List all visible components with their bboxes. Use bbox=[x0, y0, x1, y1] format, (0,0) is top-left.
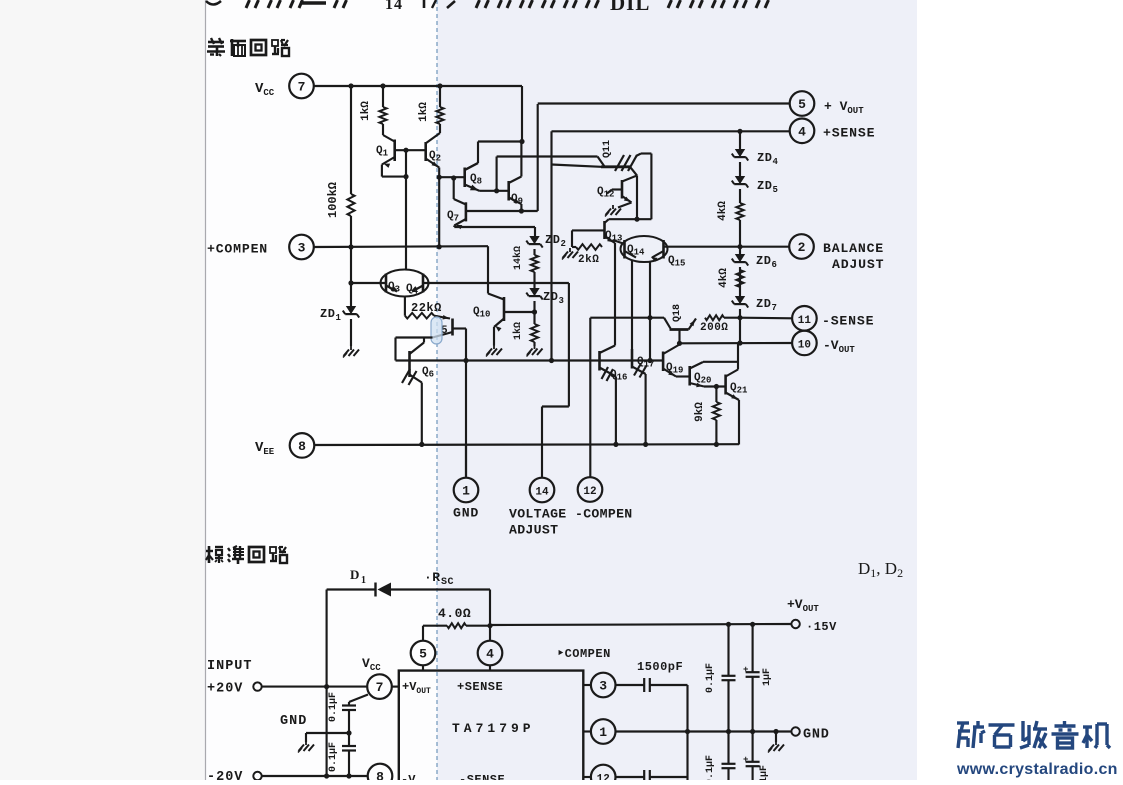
junction gnd stub bbox=[773, 729, 778, 734]
junction +SENSE drop bbox=[549, 358, 554, 363]
svg-text:D: D bbox=[350, 567, 360, 582]
pin 11 circle (-SENSE) bbox=[792, 306, 817, 331]
wire VEE rail bbox=[314, 443, 739, 446]
label 0.1uF (neg) bbox=[705, 755, 716, 785]
svg-text:Q11: Q11 bbox=[602, 140, 613, 158]
svg-text:+SENSE: +SENSE bbox=[457, 680, 503, 694]
pin 1 circle (GND) bbox=[454, 478, 479, 503]
svg-text:3: 3 bbox=[599, 679, 607, 694]
zener ZD4 bbox=[732, 149, 748, 161]
junction Q9 emitter on output wire bbox=[519, 208, 524, 213]
svg-text:ZD: ZD bbox=[757, 151, 772, 165]
svg-text:1kΩ: 1kΩ bbox=[360, 101, 372, 121]
zener ZD5 bbox=[732, 176, 748, 188]
svg-text:9kΩ: 9kΩ bbox=[694, 402, 706, 422]
junction ZD1/Q3 wire bbox=[348, 280, 353, 285]
transistor Q11 (hatched) bbox=[601, 154, 651, 176]
svg-text:GND: GND bbox=[280, 714, 307, 729]
junction RSC/4ohm bbox=[487, 623, 492, 628]
label -SENSE (IC) bbox=[459, 773, 505, 785]
pin 8 circle (VEE) bbox=[290, 433, 315, 458]
terminal GND bbox=[791, 727, 799, 735]
svg-text:2: 2 bbox=[561, 239, 567, 249]
wire -VOUT net bbox=[680, 342, 793, 344]
junction balance/zener chain bbox=[737, 244, 742, 249]
stub pin4 to IC bbox=[489, 665, 491, 670]
svg-text:5: 5 bbox=[773, 185, 779, 195]
label -VOUT (IC) bbox=[401, 773, 430, 785]
ground (input) bbox=[298, 741, 314, 753]
junction caps/-20V bbox=[346, 773, 351, 778]
wire GND rail (bottom) bbox=[616, 730, 792, 732]
zener ZD2 bbox=[526, 236, 542, 248]
svg-text:3: 3 bbox=[298, 241, 306, 256]
resistor 2kOhm bbox=[572, 230, 602, 249]
ground (ZD1) bbox=[343, 346, 359, 358]
pin 14 circle (VOLTAGE ADJUST) bbox=[530, 478, 555, 503]
label +VOUT (IC) bbox=[402, 680, 431, 696]
label BALANCE ADJUST bbox=[823, 241, 884, 272]
capacitor 0.1uF (upper) bbox=[342, 706, 356, 711]
wire Q8 base bbox=[439, 176, 465, 178]
svg-text:ZD: ZD bbox=[756, 297, 771, 311]
wire Q6 emitter to VEE bbox=[421, 383, 423, 445]
junction Q19 base bbox=[647, 358, 652, 363]
svg-text:GND: GND bbox=[453, 506, 479, 521]
svg-text:+: + bbox=[743, 665, 749, 675]
label 1uF (neg) bbox=[759, 765, 770, 783]
svg-text:1: 1 bbox=[336, 313, 342, 323]
svg-text:BALANCE: BALANCE bbox=[823, 241, 884, 256]
svg-text:12: 12 bbox=[583, 486, 596, 498]
svg-text:0.1μF: 0.1μF bbox=[328, 692, 339, 722]
wire RSC right drop bbox=[489, 590, 491, 641]
transistor Q16 bbox=[600, 346, 616, 382]
label Q12 bbox=[597, 186, 614, 200]
svg-text:3: 3 bbox=[559, 296, 565, 306]
label Q13 bbox=[605, 230, 622, 244]
svg-text:14: 14 bbox=[535, 487, 549, 499]
resistor 14kOhm bbox=[531, 249, 538, 288]
svg-text:ZD: ZD bbox=[543, 290, 558, 304]
label Q19 bbox=[666, 362, 683, 376]
wire Q8 collector top bbox=[465, 142, 522, 171]
svg-text:4: 4 bbox=[773, 157, 779, 167]
label Q1 bbox=[376, 145, 389, 159]
label GND (output) bbox=[803, 728, 830, 743]
svg-text:12: 12 bbox=[597, 774, 610, 781]
zener ZD7 bbox=[732, 296, 748, 308]
svg-text:0.1μF: 0.1μF bbox=[705, 663, 716, 693]
wire balance adjust net bbox=[664, 246, 790, 248]
svg-text:4: 4 bbox=[798, 124, 806, 139]
junction VEE/9k bbox=[714, 442, 719, 447]
label VEE bbox=[255, 440, 275, 457]
svg-text:7: 7 bbox=[298, 80, 306, 95]
stub pin7 to IC bbox=[392, 686, 399, 688]
terminal +20V bbox=[253, 682, 261, 690]
heading: equivalent-circuit (Japanese) bbox=[207, 38, 289, 56]
svg-text:-SENSE: -SENSE bbox=[822, 314, 874, 329]
wire Q21 emitter to VEE bbox=[738, 400, 740, 445]
capacitor 1500pF bbox=[616, 678, 688, 692]
label D1 bbox=[350, 567, 367, 586]
pin 7 circle (bottom) bbox=[367, 674, 392, 699]
wire Q2 emitter to node bbox=[438, 168, 440, 178]
label D1 D2 note bbox=[858, 559, 903, 580]
zener ZD1 bbox=[343, 247, 359, 346]
label 1kOhm (Q2) bbox=[418, 102, 430, 122]
dual transistor Q14/Q15 oval bbox=[613, 236, 668, 262]
label Q8 bbox=[470, 173, 482, 187]
junction crossing -COMPEN wire bbox=[647, 315, 652, 320]
label Q7 bbox=[447, 210, 459, 224]
VCC label bbox=[255, 81, 275, 98]
svg-text:1kΩ: 1kΩ bbox=[418, 102, 430, 122]
label -COMPEN bbox=[575, 507, 633, 522]
label Q10 bbox=[473, 306, 490, 320]
label 4kOhm (lower) bbox=[718, 268, 730, 288]
junction Q13 net bbox=[634, 217, 639, 222]
label ZD4 bbox=[757, 151, 779, 167]
capacitor 0.1uF (lower) bbox=[342, 746, 356, 751]
svg-text:4kΩ: 4kΩ bbox=[717, 201, 729, 221]
junction VEE/Q6 bbox=[419, 442, 424, 447]
svg-text:1kΩ: 1kΩ bbox=[512, 322, 524, 340]
transistor Q1 bbox=[382, 140, 426, 177]
junction -VOUT/zener column bbox=[737, 340, 742, 345]
svg-text:VOLTAGE: VOLTAGE bbox=[509, 507, 567, 522]
label ZD7 bbox=[756, 297, 777, 313]
junction VEE/Q16 bbox=[613, 442, 618, 447]
junction +20V/D1 bbox=[324, 684, 329, 689]
junction Q1 emitter net bbox=[403, 174, 408, 179]
wire +20V bbox=[262, 686, 368, 688]
page left edge line bbox=[205, 0, 207, 780]
resistor 9kOhm bbox=[713, 387, 720, 445]
svg-text:8: 8 bbox=[376, 770, 384, 781]
svg-text:1: 1 bbox=[462, 484, 470, 499]
resistor 22kOhm bbox=[405, 313, 450, 320]
junction GND/1uF bbox=[750, 729, 755, 734]
svg-text:6: 6 bbox=[772, 260, 778, 270]
wire Q3 base bbox=[351, 282, 386, 284]
wire Q7 emitter node bbox=[454, 227, 535, 236]
svg-text:5: 5 bbox=[798, 97, 806, 112]
svg-text:ADJUST: ADJUST bbox=[509, 523, 558, 538]
wire +15V rail bbox=[490, 624, 791, 625]
junction +SENSE / zener chain bbox=[737, 129, 742, 134]
ground (Q10) bbox=[486, 345, 502, 357]
label +SENSE (IC) bbox=[457, 680, 503, 694]
label Q6 bbox=[422, 366, 434, 380]
svg-text:-COMPEN: -COMPEN bbox=[575, 507, 633, 522]
svg-text:SC: SC bbox=[441, 577, 454, 588]
junction VCC/1k Q2 bbox=[437, 83, 442, 88]
svg-text:1500pF: 1500pF bbox=[637, 660, 683, 674]
pin 1 circle (bottom) bbox=[591, 719, 616, 744]
ground (Q12 emitter) bbox=[605, 205, 621, 217]
resistor 100kOhm bbox=[347, 86, 354, 247]
diode D1 bbox=[327, 583, 490, 597]
svg-text:1: 1 bbox=[599, 725, 607, 740]
stub pin3 to IC bbox=[583, 684, 591, 686]
junction 9k top bbox=[714, 384, 719, 389]
wire Q11 to Q13 net bbox=[637, 154, 651, 220]
label Q4 bbox=[406, 283, 419, 297]
svg-text:ZD: ZD bbox=[756, 254, 771, 268]
pin 3 circle (bottom) bbox=[591, 673, 616, 698]
resistor 1kOhm (Q2) bbox=[427, 86, 444, 143]
label Q16 bbox=[610, 369, 627, 383]
label +VOUT +15V bbox=[787, 597, 837, 634]
watermark logo (crystalradio) bbox=[957, 721, 1110, 748]
svg-text:7: 7 bbox=[376, 680, 384, 695]
transistor Q6 (hatched) bbox=[402, 338, 424, 386]
svg-text:10: 10 bbox=[798, 339, 811, 351]
junction VCC/1k Q1 bbox=[380, 83, 385, 88]
label Q3 bbox=[388, 281, 400, 295]
junction 15V/0.1uF bbox=[726, 622, 731, 627]
svg-text:D1, D2: D1, D2 bbox=[858, 559, 903, 580]
terminal -20V bbox=[253, 772, 261, 780]
svg-text:200Ω: 200Ω bbox=[700, 322, 728, 334]
label 1kOhm (Q1) bbox=[360, 101, 372, 121]
svg-text:2kΩ: 2kΩ bbox=[578, 254, 599, 266]
junction VCC/100k bbox=[348, 83, 353, 88]
capacitor 0.1uF (output) bbox=[722, 624, 736, 731]
label Q15 bbox=[668, 255, 685, 269]
svg-text:5: 5 bbox=[419, 647, 427, 662]
svg-text:1μF: 1μF bbox=[762, 668, 773, 686]
capacitor 1uF (neg) bbox=[743, 732, 760, 781]
label +VOUT bbox=[824, 99, 864, 116]
label 200Ohm bbox=[700, 322, 728, 334]
wire Q18 base net (-COMPEN) bbox=[590, 318, 664, 477]
transistor Q19 bbox=[663, 345, 679, 377]
wire D1 left drop bbox=[326, 590, 328, 777]
label Q11 bbox=[602, 140, 613, 158]
label 0.1uF (upper) bbox=[328, 692, 339, 722]
label 1500pF bbox=[637, 660, 683, 674]
wire -SENSE to pin 11 bbox=[740, 317, 792, 320]
ground (2k resistor) bbox=[562, 248, 578, 260]
svg-text:TA7179P: TA7179P bbox=[452, 721, 535, 736]
junction -SENSE/zener bbox=[737, 315, 742, 320]
transistor Q17 bbox=[632, 349, 647, 378]
wire Q21 base bbox=[704, 385, 726, 387]
pin 5 circle (+VOUT) bbox=[790, 91, 815, 116]
label 4.0Ohm bbox=[438, 606, 471, 621]
capacitor (pin12) bbox=[616, 770, 688, 784]
transistor Q20 bbox=[676, 362, 704, 387]
svg-text:14kΩ: 14kΩ bbox=[512, 246, 524, 270]
svg-text:4kΩ: 4kΩ bbox=[718, 268, 730, 288]
wire Q14 to Q19 base bbox=[649, 261, 651, 361]
pin 10 circle (-VOUT) bbox=[792, 331, 817, 356]
wire Q16 emitter to VEE bbox=[615, 377, 617, 445]
label GND (input) bbox=[280, 714, 307, 729]
svg-text:+COMPEN: +COMPEN bbox=[207, 242, 268, 257]
svg-text:+: + bbox=[743, 755, 749, 765]
label Q5 bbox=[441, 325, 448, 337]
ground (1k) bbox=[527, 345, 543, 357]
transistor Q7 bbox=[454, 178, 466, 229]
label Q18 bbox=[672, 304, 683, 322]
label -VOUT bbox=[823, 338, 855, 355]
wire Q13 collector net bbox=[609, 218, 652, 220]
label ZD5 bbox=[757, 179, 778, 195]
pin 3 circle (+COMPEN) bbox=[289, 235, 314, 260]
label 0.1uF (output) bbox=[705, 663, 716, 693]
capacitor 1uF (output) bbox=[743, 624, 760, 731]
junction VEE/Q17 bbox=[643, 442, 648, 447]
svg-text:ZD: ZD bbox=[545, 233, 560, 247]
junction +COMPEN/100k bbox=[348, 244, 353, 249]
terminal +15V bbox=[791, 620, 799, 628]
label TA7179P bbox=[452, 721, 535, 736]
label ZD2 bbox=[545, 233, 566, 249]
label VOLTAGE ADJUST bbox=[509, 507, 567, 538]
wire +SENSE net bbox=[552, 131, 790, 360]
pin 12 circle (-COMPEN) bbox=[578, 477, 603, 502]
pin 12 circle (bottom) bbox=[591, 765, 616, 785]
label ZD1 bbox=[320, 307, 342, 323]
junction +COMPEN/Q7 base net bbox=[437, 244, 442, 249]
label 9kOhm bbox=[694, 402, 706, 422]
wire Q8 emitter to Q9 base bbox=[480, 190, 509, 192]
label Q14 bbox=[627, 244, 645, 258]
resistor 4kOhm (lower) bbox=[736, 270, 743, 287]
wire GND tap bbox=[306, 733, 349, 742]
svg-text:www.crystalradio.cn: www.crystalradio.cn bbox=[956, 761, 1118, 778]
svg-text:0.1μF: 0.1μF bbox=[705, 755, 716, 780]
wire 1500pF drop bbox=[686, 685, 688, 780]
junction GND/0.1uF bbox=[726, 729, 731, 734]
svg-text:‣COMPEN: ‣COMPEN bbox=[557, 647, 611, 661]
svg-text:100kΩ: 100kΩ bbox=[326, 182, 340, 218]
transistor Q13 bbox=[572, 219, 615, 243]
svg-text:INPUT: INPUT bbox=[207, 659, 253, 674]
heading: standard-circuit (Japanese) bbox=[206, 546, 287, 564]
svg-text:22kΩ: 22kΩ bbox=[411, 301, 442, 315]
svg-text:GND: GND bbox=[803, 728, 830, 743]
stub pin5 to IC bbox=[422, 665, 424, 670]
transistor Q18 bbox=[664, 318, 696, 344]
label -20V bbox=[207, 770, 243, 785]
zener chain vertical wire bbox=[739, 131, 741, 343]
IC box TA7179P bbox=[399, 671, 584, 780]
label -SENSE bbox=[822, 314, 874, 329]
wire VCC rail bbox=[314, 85, 522, 87]
label 14kOhm bbox=[512, 246, 524, 270]
resistor 1kOhm (Q1) bbox=[379, 86, 394, 142]
wire Q13/Q16 vertical bbox=[614, 243, 616, 346]
label +COMPEN bbox=[207, 242, 268, 257]
wire input caps chain bbox=[349, 695, 368, 777]
svg-text:DIL: DIL bbox=[610, 0, 650, 15]
label RSC bbox=[424, 570, 454, 588]
svg-text:7: 7 bbox=[772, 303, 778, 313]
label ZD6 bbox=[756, 254, 777, 270]
transistor Q2 bbox=[426, 142, 440, 168]
wire +VOUT node bbox=[466, 104, 790, 212]
svg-text:2: 2 bbox=[798, 240, 806, 255]
label Q21 bbox=[730, 382, 748, 396]
svg-text:+20V: +20V bbox=[207, 682, 243, 697]
zener ZD6 bbox=[732, 254, 748, 266]
label 1uF (output) bbox=[762, 668, 773, 686]
junction ZD3/Q10 base bbox=[532, 309, 537, 314]
clipped header text bottoms bbox=[206, 0, 769, 15]
pin 5 circle (bottom) bbox=[411, 641, 436, 666]
junction GND/1500pF bbox=[685, 729, 690, 734]
wire node down to +COMPEN bbox=[438, 177, 440, 247]
wire oval bottom bbox=[404, 297, 406, 316]
wire Q4 to voltage-adjust bbox=[423, 283, 569, 478]
svg-text:14: 14 bbox=[385, 0, 403, 13]
label INPUT bbox=[207, 659, 253, 674]
stub pin12 to IC bbox=[583, 776, 591, 778]
pin 4 circle (+SENSE) bbox=[790, 119, 815, 144]
label COMPEN (bottom) bbox=[557, 647, 611, 661]
resistor 4kOhm (upper) bbox=[736, 203, 743, 220]
wire GND pin drop bbox=[465, 445, 467, 478]
junction Q18 emitter bbox=[677, 341, 682, 346]
svg-text:8: 8 bbox=[298, 439, 306, 454]
stub pin1 to IC bbox=[583, 730, 591, 732]
label Q2 bbox=[429, 150, 441, 164]
ground (output) bbox=[768, 741, 784, 753]
wire Q14/Q17 vertical bbox=[631, 260, 633, 350]
wire Q20 collector to -VOUT bbox=[703, 343, 738, 369]
svg-text:ZD: ZD bbox=[757, 179, 772, 193]
transistor Q10 bbox=[494, 297, 535, 346]
pin 4 circle (bottom) bbox=[478, 641, 503, 666]
junction GND tap bbox=[346, 730, 351, 735]
svg-text:4.0Ω: 4.0Ω bbox=[438, 606, 471, 621]
svg-text:1: 1 bbox=[361, 575, 367, 586]
transistor Q8 bbox=[465, 163, 480, 191]
transistor Q21 bbox=[726, 370, 739, 401]
svg-text:ADJUST: ADJUST bbox=[832, 257, 884, 272]
junction sense net bbox=[463, 358, 468, 363]
label Q9 bbox=[511, 193, 523, 207]
wire Q5 emitter net bbox=[396, 338, 433, 361]
label +SENSE bbox=[823, 126, 875, 141]
resistor 200Ohm bbox=[705, 315, 740, 320]
svg-text:·R: ·R bbox=[424, 570, 441, 585]
label 100kOhm bbox=[326, 182, 340, 218]
svg-text:·15V: ·15V bbox=[806, 620, 837, 634]
svg-text:-20V: -20V bbox=[207, 770, 243, 780]
svg-text:0.1μF: 0.1μF bbox=[328, 742, 339, 772]
junction Q1 base bbox=[403, 148, 408, 153]
label ZD3 bbox=[543, 290, 564, 306]
zener ZD3 bbox=[526, 288, 542, 300]
junction 15V/1uF bbox=[750, 622, 755, 627]
wire pin5 riser bbox=[422, 626, 424, 641]
wire Q11 feed bbox=[497, 157, 605, 167]
transistor Q9 bbox=[509, 142, 522, 212]
label 2kOhm bbox=[578, 254, 599, 266]
junction Q8 collector net bbox=[519, 139, 524, 144]
highlight artifact over Q5 bbox=[431, 317, 442, 344]
wire Q5 collector to GND pin bbox=[465, 329, 467, 478]
wire Q9 base feed bbox=[496, 157, 498, 191]
wire -20V bbox=[262, 775, 368, 777]
wire long emitter-follower net bbox=[396, 359, 664, 361]
